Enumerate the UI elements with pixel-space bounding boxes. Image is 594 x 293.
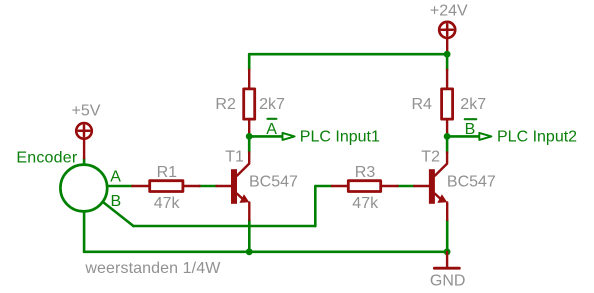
svg-text:47k: 47k — [154, 195, 181, 212]
label PLC Input2 — [497, 129, 577, 146]
label 2k7 (R2 value) — [259, 96, 285, 113]
svg-text:+24V: +24V — [430, 2, 468, 19]
label 47k (R1 value) — [154, 195, 181, 212]
label Encoder — [16, 149, 77, 166]
svg-text:Encoder: Encoder — [16, 149, 77, 166]
wire encoder A to R1 — [107, 185, 132, 188]
svg-text:R3: R3 — [355, 164, 376, 181]
svg-text:2k7: 2k7 — [259, 96, 285, 113]
wire bottom ground bus — [84, 251, 447, 254]
junction node B-bar — [444, 133, 451, 140]
svg-text:47k: 47k — [352, 195, 379, 212]
svg-text:T2: T2 — [421, 148, 440, 165]
wire R2 top to top bus — [248, 54, 251, 69]
resistor R2 — [244, 70, 255, 136]
svg-text:R4: R4 — [412, 96, 433, 113]
arrow PLC Input2 — [479, 133, 491, 140]
label B-bar — [465, 119, 477, 138]
wire node A-bar down to T1 collector — [248, 136, 251, 152]
svg-text:+5V: +5V — [72, 102, 101, 119]
label GND — [430, 273, 466, 290]
svg-text:A: A — [110, 168, 121, 185]
resistor R3 — [332, 181, 398, 192]
arrow PLC Input1 — [283, 133, 295, 140]
wire node B-bar down to T2 collector — [446, 136, 449, 152]
wire encoder bottom down — [83, 211, 86, 251]
svg-text:B: B — [111, 193, 122, 210]
wire T2 emitter down to ground node — [446, 220, 449, 252]
wire R3 to T2 base — [397, 185, 414, 188]
label BC547 (T1) — [249, 173, 298, 190]
supply +5V symbol — [76, 123, 92, 158]
svg-text:A: A — [266, 121, 277, 138]
svg-text:BC547: BC547 — [447, 173, 496, 190]
svg-text:T1: T1 — [225, 148, 244, 165]
junction T1 emitter / ground bus — [246, 248, 253, 255]
junction +24V node — [444, 51, 451, 58]
svg-text:BC547: BC547 — [249, 173, 298, 190]
wire T1 emitter down to ground bus — [248, 220, 251, 252]
label 47k (R3 value) — [352, 195, 379, 212]
wire R4 top to +24V node — [446, 54, 449, 69]
svg-text:B: B — [465, 121, 476, 138]
svg-text:2k7: 2k7 — [460, 96, 486, 113]
svg-text:R1: R1 — [157, 164, 178, 181]
wire R1 to T1 base — [199, 185, 216, 188]
wire node B-bar to arrow — [447, 135, 479, 138]
label weerstanden 1/4W — [84, 260, 221, 277]
ground symbol GND — [434, 252, 459, 268]
label R4 — [412, 96, 433, 113]
label BC547 (T2) — [447, 173, 496, 190]
label +24V — [430, 2, 468, 19]
wire node A-bar to arrow — [249, 135, 282, 138]
wire encoder B diagonal — [101, 200, 133, 226]
junction T2 emitter / ground bus — [444, 248, 451, 255]
resistor R1 — [132, 181, 199, 192]
svg-text:PLC Input1: PLC Input1 — [300, 129, 380, 146]
transistor T2 — [414, 152, 447, 220]
label R1 — [157, 164, 178, 181]
transistor T1 — [217, 152, 250, 220]
svg-text:R2: R2 — [215, 96, 236, 113]
label R2 — [215, 96, 236, 113]
label A (encoder output) — [110, 168, 121, 185]
encoder circle — [60, 165, 107, 212]
label T2 — [421, 148, 440, 165]
svg-text:GND: GND — [430, 273, 466, 290]
label T1 — [225, 148, 244, 165]
svg-text:weerstanden 1/4W: weerstanden 1/4W — [84, 260, 221, 277]
wire top bus from R2 to +24V node — [249, 53, 447, 56]
label +5V — [72, 102, 101, 119]
resistor R4 — [442, 70, 453, 136]
label PLC Input1 — [300, 129, 380, 146]
junction node A-bar — [246, 133, 253, 140]
label 2k7 (R4 value) — [460, 96, 486, 113]
supply +24V symbol — [439, 22, 455, 54]
svg-text:PLC Input2: PLC Input2 — [497, 129, 577, 146]
wire +5V to encoder — [83, 158, 86, 164]
label A-bar — [266, 119, 277, 138]
label B (encoder output) — [111, 193, 122, 210]
wire B horizontal run — [133, 225, 315, 228]
label R3 — [355, 164, 376, 181]
wire B riser to R3 — [315, 186, 332, 226]
